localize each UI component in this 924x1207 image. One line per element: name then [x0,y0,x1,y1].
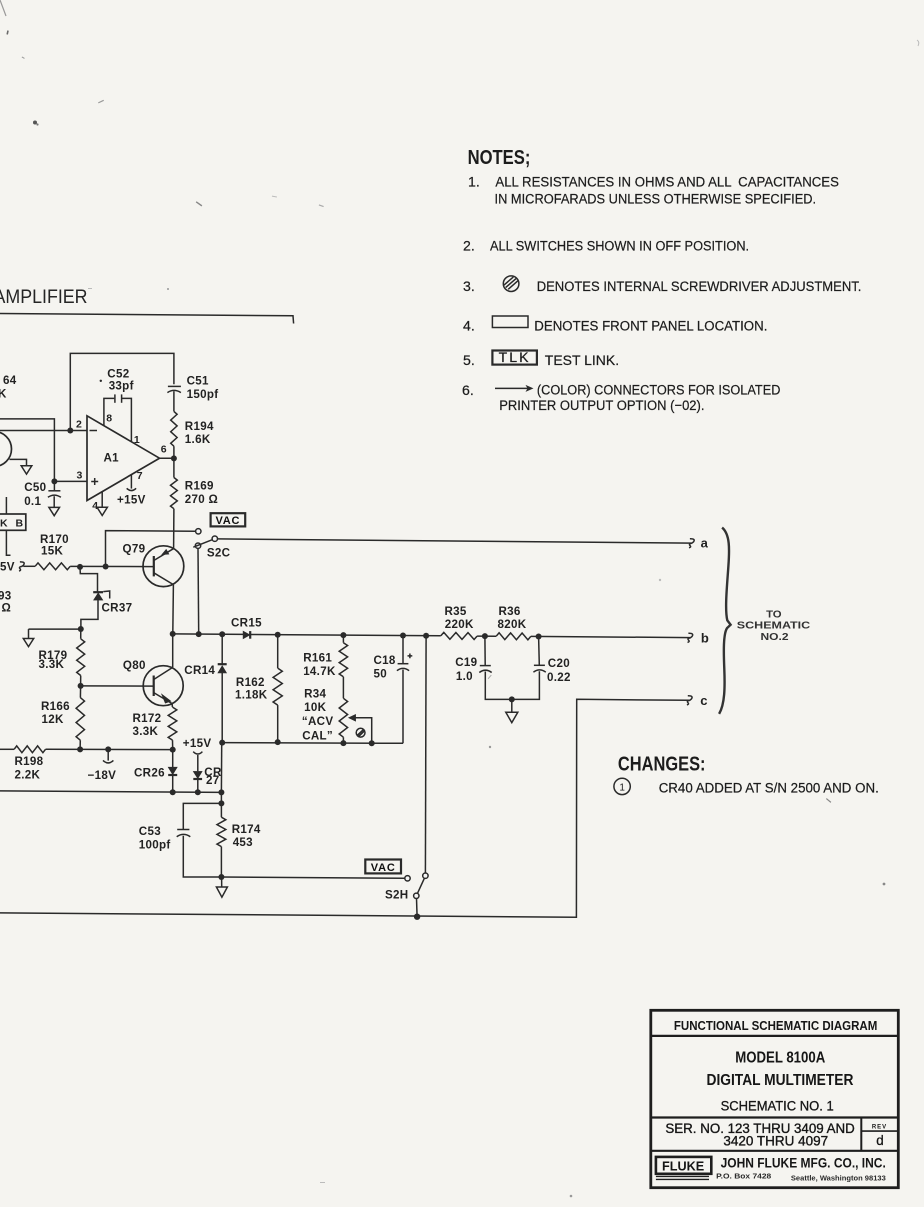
svg-text:A1: A1 [104,452,120,465]
svg-text:270 Ω: 270 Ω [185,493,218,506]
svg-text:R194: R194 [185,420,214,433]
capacitor C20 [538,637,541,666]
wire +15V bus [222,742,403,745]
svg-text:R172: R172 [133,712,162,725]
front-panel box VAC [211,513,246,526]
svg-text:CR15: CR15 [231,616,262,629]
resistor R198 [0,748,14,750]
test link box TLK B [5,497,7,514]
svg-text:FLUKE: FLUKE [662,1159,705,1174]
svg-text:C18: C18 [374,654,396,667]
svg-text:AMPLIFIER: AMPLIFIER [0,286,88,308]
svg-text:7: 7 [137,470,143,482]
svg-text:VAC: VAC [215,515,240,527]
svg-text:6: 6 [161,443,167,455]
screwdriver adjustment symbol [503,276,519,292]
node C50 junction [51,478,57,484]
diode CR15 [243,631,250,639]
svg-text:0.1: 0.1 [24,495,41,508]
junction CR26 bottom [170,789,176,795]
svg-text:CHANGES:: CHANGES: [618,754,706,776]
svg-text:220K: 220K [445,618,474,631]
wire R179 top [80,629,82,639]
svg-text:C53: C53 [139,825,161,838]
node R170/CR37 [77,564,83,570]
svg-text:4.: 4. [463,318,475,334]
ground C19/C20 [506,712,518,722]
svg-text:12K: 12K [42,713,64,726]
brace to schematic no.2 [719,528,731,714]
svg-text:−18V: −18V [88,769,117,782]
connector arrow note 6 [495,387,529,389]
wire junction to R174 [220,792,222,803]
svg-text:+15V: +15V [183,737,212,750]
svg-text:3: 3 [77,470,83,482]
svg-text:6.: 6. [462,382,474,398]
capacitor C18 [402,636,404,664]
svg-text:CR37: CR37 [102,601,133,614]
transistor Q79 [143,546,184,587]
svg-text:VAC: VAC [371,862,396,874]
wire node a [218,539,693,543]
pin 7 stub +15V [130,475,132,489]
junction C19 branch [482,633,488,639]
svg-text:4: 4 [92,500,98,512]
wire node b bus [173,634,441,636]
switch S2C [196,529,201,534]
resistor R169 [173,458,175,477]
svg-text:SCHEMATIC: SCHEMATIC [737,621,810,632]
logo FLUKE [656,1157,711,1174]
svg-text:Q80: Q80 [123,659,146,672]
screwdriver adjust symbol [356,728,365,737]
svg-text:S2H: S2H [385,888,408,901]
junction S2C branch [196,631,202,637]
diode CR27 [193,771,202,778]
svg-text:K B: K B [0,517,26,529]
svg-text:NO.2: NO.2 [761,632,789,643]
capacitor C52 [114,394,116,402]
svg-text:3.: 3. [463,278,475,294]
title block border [651,1010,899,1187]
junction R34 wiper [369,740,375,746]
junction R161 branch [340,632,346,638]
wire S2C down to b bus [197,548,200,634]
wire +15V bus down to CR bus [220,743,222,793]
svg-text:R166: R166 [41,700,70,713]
svg-text:REV: REV [872,1124,887,1130]
svg-text:(COLOR) CONNECTORS FOR ISOLATE: (COLOR) CONNECTORS FOR ISOLATED [537,382,781,398]
svg-text:R36: R36 [499,605,521,618]
wire bottom bus [0,699,690,917]
svg-text:d: d [876,1133,883,1148]
svg-text:C50: C50 [24,481,46,494]
svg-text:0.22: 0.22 [547,671,571,684]
svg-text:FUNCTIONAL SCHEMATIC DIAGRAM: FUNCTIONAL SCHEMATIC DIAGRAM [674,1018,877,1033]
svg-text:S2C: S2C [207,546,231,559]
junction R174 top bus [218,789,224,795]
svg-text:P.O. Box 7428: P.O. Box 7428 [716,1172,771,1181]
resistor R194 [171,411,177,446]
svg-text:820K: 820K [498,618,527,631]
wire to S2C [106,531,196,567]
svg-text:8: 8 [106,412,112,424]
capacitor C53 [183,803,221,829]
resistor R161 [342,635,344,643]
svg-text:33pf: 33pf [109,379,134,392]
svg-text:Seattle, Washington 98133: Seattle, Washington 98133 [791,1173,886,1182]
op-amp A1 [87,416,160,501]
diode CR14 [221,634,223,664]
node R174 bottom [218,874,224,880]
junction R162 bottom [275,739,281,745]
node C19/C20 ground [509,696,515,702]
diode CR37 [80,567,98,592]
svg-text:5.: 5. [463,352,475,368]
svg-text:PRINTER OUTPUT OPTION (−02).: PRINTER OUTPUT OPTION (−02). [499,397,704,413]
svg-text:R169: R169 [185,479,214,492]
potentiometer R34 ACV CAL [339,698,347,737]
svg-text:100pf: 100pf [139,839,171,852]
svg-text:NOTES;: NOTES; [468,147,531,169]
switch S2H [405,876,410,881]
wire to ground left [29,628,81,630]
wire pin3 [54,480,87,482]
transistor Q80 [143,666,183,706]
svg-text:5V: 5V [0,560,15,573]
power -18V [107,749,109,760]
node base Q79 [103,564,109,570]
junction Q80 collector [170,631,176,637]
wire feedback loop [70,353,174,430]
svg-text:a: a [701,536,709,551]
node output pin6 [171,455,177,461]
svg-text:15K: 15K [41,544,63,557]
svg-text:R35: R35 [445,605,467,618]
wire S2H to bottom bus [416,899,419,917]
wire R169 to Q79 emitter [173,509,175,549]
svg-text:Ω: Ω [2,601,12,614]
svg-text:MODEL 8100A: MODEL 8100A [735,1049,825,1066]
node R166 bottom [77,746,83,752]
svg-text:SCHEMATIC NO. 1: SCHEMATIC NO. 1 [721,1098,834,1113]
svg-text:TO: TO [766,609,782,620]
svg-text:Q79: Q79 [123,542,146,555]
svg-text:C51: C51 [187,375,209,388]
resistor R174 [220,803,222,817]
resistor R179 [77,639,85,676]
svg-text:64: 64 [3,374,17,387]
svg-text:150pf: 150pf [187,388,219,401]
diode CR26 [172,750,174,767]
resistor R35 [441,632,477,639]
svg-text:+15V: +15V [117,493,146,506]
svg-text:1.18K: 1.18K [235,689,268,702]
junction CR14 branch [219,631,225,637]
svg-text:1: 1 [619,782,625,793]
node pin2 junction [67,428,73,434]
svg-text:3.3K: 3.3K [133,725,159,738]
svg-text:C19: C19 [455,656,477,669]
node R172/CR26 [170,747,176,753]
junction R162 branch [275,632,281,638]
svg-text:“ACV: “ACV [302,715,333,728]
svg-text:JOHN FLUKE MFG. CO., INC.: JOHN FLUKE MFG. CO., INC. [721,1155,886,1170]
svg-text:R161: R161 [303,652,332,665]
svg-text:50: 50 [374,667,388,680]
svg-text:CAL”: CAL” [302,729,333,742]
svg-text:453: 453 [233,836,253,849]
title underline wire [0,314,294,324]
capacitor C19 [484,636,486,665]
change flag 1 [614,778,630,794]
ground R174 [221,877,223,887]
wire pin6 to node [160,457,174,459]
junction CR14 bottom [219,740,225,746]
resistor R36 [496,633,531,640]
ground C50 [49,507,60,515]
pin 4 stub ground [101,492,103,508]
wire Q79 collector down [172,585,175,634]
capacitor C51 [168,385,181,387]
front panel location symbol [492,316,528,328]
svg-text:R174: R174 [232,823,261,836]
wire Q80 collector up [172,634,174,667]
svg-text:R34: R34 [304,688,326,701]
svg-text:CR26: CR26 [134,767,165,780]
svg-text:2.: 2. [463,237,475,253]
wire to S2H [221,877,404,878]
svg-text:1: 1 [134,434,140,446]
front-panel box VAC2 [365,860,401,874]
svg-text:DENOTES INTERNAL SCREWDRIVER A: DENOTES INTERNAL SCREWDRIVER ADJUSTMENT. [537,278,862,294]
test link symbol TLK [492,351,537,365]
svg-text:K: K [0,388,7,401]
ground R179 [23,639,33,647]
svg-text:27: 27 [206,774,220,787]
wire S2H from b bus [424,636,427,873]
junction S2H branch [423,633,429,639]
svg-text:R162: R162 [236,676,265,689]
ground left [21,466,32,474]
wire bus CR26/CR27 bottom [0,791,221,793]
svg-text:CR14: CR14 [184,664,215,677]
pin 8 stub [104,398,114,425]
svg-text:2.2K: 2.2K [15,769,41,782]
node R179 top [78,626,84,632]
R34 wiper arrow [349,715,356,722]
svg-text:b: b [701,631,709,646]
resistor R166 [79,686,81,698]
junction CR27 bottom [195,789,201,795]
svg-text:C20: C20 [548,657,570,670]
svg-text:TLK: TLK [499,349,531,365]
node bottom bus [414,914,420,920]
svg-text:IN MICROFARADS UNLESS OTHERWIS: IN MICROFARADS UNLESS OTHERWISE SPECIFIE… [495,191,817,207]
svg-text:3.3K: 3.3K [39,658,65,671]
resistor R170 [23,565,35,567]
svg-text:10K: 10K [304,701,326,714]
svg-text:1.0: 1.0 [456,670,473,683]
resistor R172 [171,704,173,708]
svg-text:R198: R198 [15,755,44,768]
svg-text:14.7K: 14.7K [303,665,336,678]
junction C20 branch [536,634,542,640]
svg-text:2: 2 [76,419,82,431]
junction R34 bottom [340,740,346,746]
svg-text:DENOTES FRONT PANEL LOCATION.: DENOTES FRONT PANEL LOCATION. [534,318,767,334]
capacitor C50 [53,481,55,490]
svg-text:1.: 1. [468,174,480,190]
svg-text:CR40 ADDED AT S/N 2500 AND ON.: CR40 ADDED AT S/N 2500 AND ON. [659,779,879,795]
junction C18 branch [400,633,406,639]
svg-text:DIGITAL MULTIMETER: DIGITAL MULTIMETER [707,1072,854,1089]
wire pin2 input [0,430,87,432]
svg-text:c: c [700,693,707,708]
ground pin4 [97,507,107,515]
svg-text:ALL SWITCHES SHOWN IN OFF POSI: ALL SWITCHES SHOWN IN OFF POSITION. [490,237,749,253]
node Q80 base [78,683,84,689]
resistor R162 [277,635,279,668]
node -18V [105,746,111,752]
svg-text:TEST LINK.: TEST LINK. [545,352,619,368]
svg-text:ALL RESISTANCES IN OHMS AND AL: ALL RESISTANCES IN OHMS AND ALL CAPACITA… [495,174,839,190]
svg-text:3420 THRU 4097: 3420 THRU 4097 [723,1134,828,1149]
wire input L to pin3 [0,419,54,482]
transistor (cut off at left edge) [0,432,12,467]
svg-text:1.6K: 1.6K [185,433,211,446]
